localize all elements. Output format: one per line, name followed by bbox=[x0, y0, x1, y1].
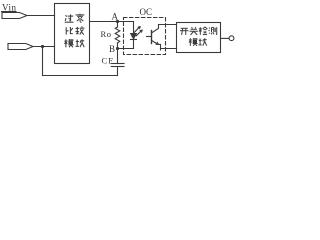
svg-text:OC: OC bbox=[140, 7, 153, 17]
node A bbox=[116, 20, 119, 23]
wire bottom up to capacitor CF bbox=[117, 67, 119, 76]
text 模块 (detection box line 2) bbox=[189, 38, 207, 46]
node junction (bottom branch) bbox=[41, 45, 44, 48]
svg-text:A: A bbox=[112, 12, 119, 22]
wire node B to LED cathode bbox=[118, 48, 134, 50]
LED cathode bar bbox=[131, 39, 137, 41]
wire output bbox=[221, 37, 230, 39]
LED cathode wire bbox=[133, 40, 135, 49]
LED triangle bbox=[131, 34, 137, 39]
phototransistor collector bbox=[152, 25, 177, 34]
wire comparator output to node A bbox=[90, 21, 134, 23]
input port Vin tag bbox=[2, 13, 27, 19]
phototransistor emitter with arrow bbox=[152, 40, 161, 50]
LED anode wire bbox=[133, 22, 135, 34]
light emission arrow 2 bbox=[136, 30, 142, 36]
svg-text:Ro: Ro bbox=[101, 29, 112, 39]
text 开关检测 (detection box line 1) bbox=[180, 27, 217, 35]
node B bbox=[116, 47, 119, 50]
capacitor CF top plate bbox=[111, 63, 124, 65]
svg-text:B: B bbox=[109, 44, 115, 54]
wire bottom return bbox=[43, 75, 118, 77]
optocoupler dashed box OC bbox=[124, 18, 166, 55]
phototransistor base stub bbox=[147, 36, 152, 38]
resistor Ro zigzag bbox=[115, 27, 120, 43]
capacitor CF bottom plate bbox=[111, 66, 124, 68]
wire node B down to capacitor bbox=[117, 49, 119, 64]
zero-cross comparator module box bbox=[55, 4, 90, 64]
label Vin underline bbox=[2, 11, 17, 13]
wire tag2 to comparator box bbox=[33, 46, 55, 48]
phototransistor base bar bbox=[151, 31, 153, 44]
svg-text:Vin: Vin bbox=[2, 3, 17, 13]
text 过零比较模块 (comparator box) bbox=[65, 14, 74, 22]
wire Vin to comparator box bbox=[27, 15, 55, 17]
switch detection module box bbox=[177, 23, 221, 53]
wire resistor to node B bbox=[117, 43, 119, 49]
wire node A down to resistor bbox=[117, 22, 119, 28]
svg-text:CF: CF bbox=[102, 56, 114, 66]
output terminal circle bbox=[229, 36, 234, 41]
wire junction down bbox=[42, 47, 44, 76]
light emission arrow 1 bbox=[134, 27, 140, 33]
input port tag 2 (lower) bbox=[8, 44, 33, 50]
